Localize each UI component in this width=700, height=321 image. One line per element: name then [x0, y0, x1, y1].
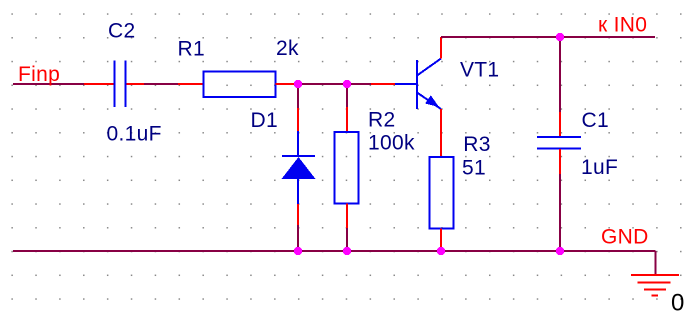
ground: [631, 275, 679, 296]
capacitor C2: [115, 61, 126, 108]
wire: collector up and across to output: [441, 37, 655, 59]
svg-text:D1: D1: [251, 109, 278, 132]
wire: R1 to base node: [276, 83, 395, 85]
svg-text:51: 51: [462, 157, 486, 180]
wire: ground rail: [13, 251, 656, 274]
wire: input net from left edge to C2: [13, 83, 114, 85]
svg-text:0.1uF: 0.1uF: [107, 123, 162, 146]
svg-text:Finp: Finp: [18, 63, 60, 86]
svg-text:1uF: 1uF: [581, 156, 618, 179]
junction at R1 right / D1: [294, 80, 302, 88]
resistor R1: [204, 72, 276, 97]
svg-text:2k: 2k: [276, 37, 299, 60]
capacitor C1: [537, 137, 581, 149]
wire: R3 to ground rail: [440, 228, 442, 251]
svg-text:100k: 100k: [368, 132, 415, 155]
resistor R3: [429, 157, 453, 229]
svg-text:R2: R2: [368, 108, 395, 131]
wire: node down to R2: [346, 84, 348, 132]
svg-text:GND: GND: [601, 226, 649, 249]
wire: C1 to ground rail: [559, 149, 561, 251]
svg-text:R3: R3: [463, 133, 490, 156]
wire: R2 to ground rail: [346, 203, 348, 251]
wire: node down to D1: [297, 84, 299, 131]
svg-text:0: 0: [671, 289, 685, 316]
junction at output / C1 top: [556, 33, 564, 41]
wire: D1 to ground rail: [297, 204, 299, 251]
transistor VT1: [395, 59, 441, 110]
wire: emitter down to R3: [440, 109, 442, 157]
junction at D1 ground: [294, 247, 302, 255]
svg-text:к IN0: к IN0: [598, 13, 647, 36]
wire: output node down to C1: [559, 37, 561, 137]
svg-text:VT1: VT1: [460, 59, 499, 82]
resistor R2: [334, 132, 358, 204]
diode D1: [282, 131, 316, 204]
svg-text:C2: C2: [108, 20, 135, 43]
junction at C1 ground: [556, 247, 564, 255]
wire: C2 to R1: [127, 83, 204, 85]
junction at R3 ground: [437, 247, 445, 255]
junction at R2 ground: [343, 247, 351, 255]
junction at R2 top: [343, 80, 351, 88]
svg-text:C1: C1: [582, 109, 609, 132]
svg-text:R1: R1: [178, 38, 205, 61]
